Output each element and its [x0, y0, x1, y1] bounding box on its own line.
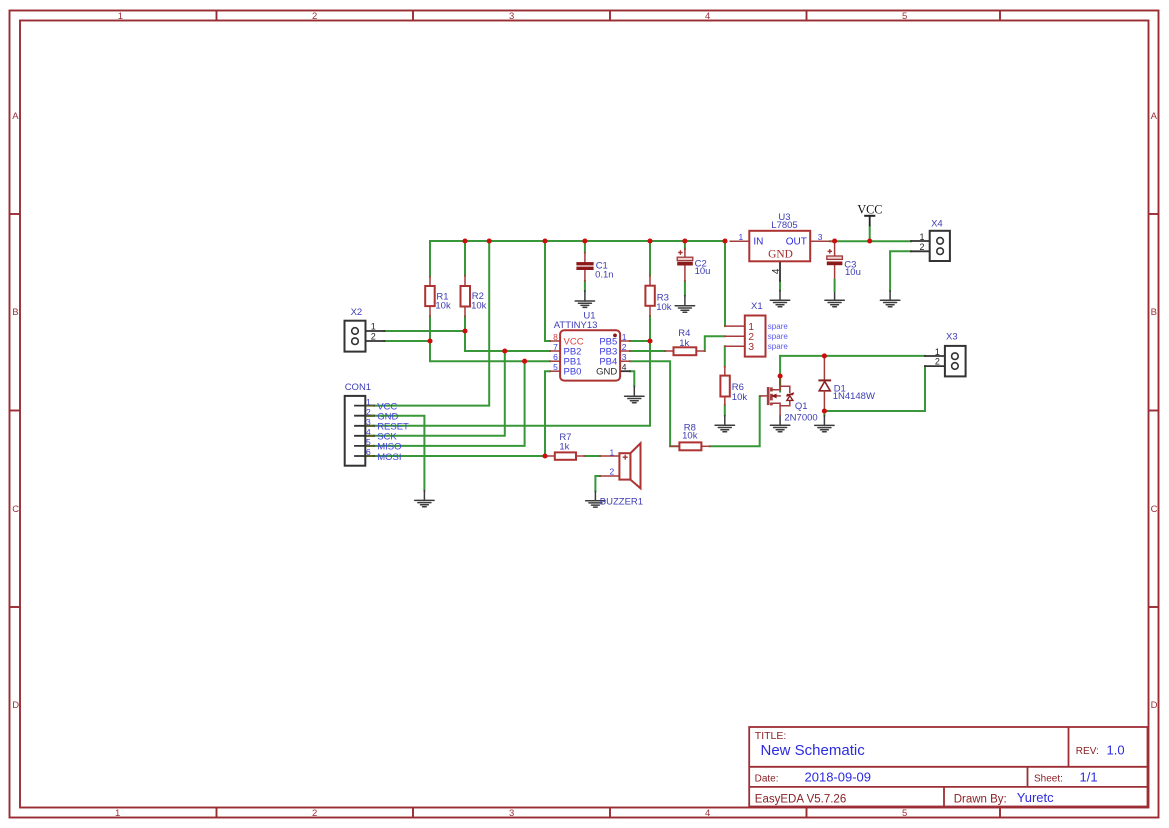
svg-text:OUT: OUT [786, 236, 807, 247]
ruler tick top 1 [216, 11, 218, 21]
title block DrawnBy divider [943, 787, 945, 807]
svg-text:spare: spare [768, 332, 789, 341]
wire MOSI net [374, 455, 545, 457]
op-amp U1 ATTINY13 body [550, 330, 630, 380]
ruler tick top 3 [609, 11, 611, 21]
ruler tick bottom 1 [216, 808, 218, 818]
svg-text:8: 8 [553, 332, 558, 342]
wire D1 anode to X3 pin2 [824, 366, 925, 411]
svg-text:1: 1 [920, 232, 925, 242]
svg-text:2: 2 [371, 332, 376, 342]
svg-text:D: D [12, 700, 19, 711]
svg-text:EasyEDA V5.7.26: EasyEDA V5.7.26 [755, 793, 846, 805]
ruler tick top 4 [806, 11, 808, 21]
ground CON1 [415, 491, 434, 507]
svg-text:1k: 1k [679, 338, 689, 349]
junction OUT VCC [867, 238, 872, 243]
power symbol VCC [857, 203, 882, 227]
connector CON1 [345, 396, 374, 466]
title block outline [749, 727, 1147, 807]
svg-text:VCC: VCC [857, 203, 882, 217]
svg-text:Q1: Q1 [795, 401, 808, 412]
wire R1 bottom [429, 316, 431, 341]
title block Sheet divider [1027, 767, 1029, 787]
svg-text:2018-09-09: 2018-09-09 [805, 769, 872, 784]
svg-text:B: B [1151, 307, 1157, 318]
svg-text:Date:: Date: [755, 773, 779, 784]
junction bus R2 [462, 238, 467, 243]
junction Q1 drain [778, 373, 783, 378]
svg-text:0.1n: 0.1n [595, 270, 614, 281]
connector X3 [925, 346, 966, 377]
GROUNDS [415, 291, 900, 508]
title block REV divider [1068, 727, 1070, 767]
svg-text:5: 5 [902, 808, 907, 819]
wire U3 pin4 [779, 281, 781, 291]
junction MOSI R7 PB0 [542, 453, 547, 458]
resistor R6 [720, 367, 729, 405]
junction bus C2 [682, 238, 687, 243]
ruler tick bottom 4 [806, 808, 808, 818]
svg-text:Yuretc: Yuretc [1017, 790, 1054, 805]
TITLEBLOCK [749, 727, 1147, 807]
svg-text:10k: 10k [682, 431, 698, 442]
svg-text:10u: 10u [845, 267, 861, 278]
svg-text:2: 2 [312, 11, 317, 22]
junction OUT C3 [832, 238, 837, 243]
svg-text:X1: X1 [751, 301, 763, 312]
svg-text:10k: 10k [732, 392, 748, 403]
svg-text:IN: IN [753, 236, 763, 247]
svg-text:C: C [1151, 504, 1158, 515]
resistor R2 [461, 276, 471, 317]
svg-text:3: 3 [622, 352, 627, 362]
capacitor C3 [827, 241, 843, 291]
wire PB2 net [465, 331, 550, 351]
svg-text:2: 2 [920, 242, 925, 252]
wire VCC bus [430, 240, 725, 242]
ground D1 [815, 416, 834, 432]
wire X2 pin1 [384, 330, 465, 332]
svg-text:6: 6 [366, 447, 371, 457]
svg-text:X2: X2 [351, 307, 363, 318]
svg-text:1: 1 [935, 347, 940, 357]
wire CON1 GND [366, 416, 424, 491]
ground Q1 source [770, 415, 789, 431]
svg-text:GND: GND [768, 249, 793, 261]
resistor R1 [425, 277, 435, 317]
svg-text:D: D [1151, 700, 1158, 711]
wire Q1 drain riser [779, 356, 781, 376]
ground C3 [825, 291, 844, 307]
svg-text:2: 2 [622, 342, 627, 352]
diode D1 1N4148W [818, 356, 831, 411]
ground U1 pin4 [625, 386, 644, 402]
svg-text:1: 1 [366, 397, 371, 407]
wire R4 to X1 pin2 [705, 336, 725, 351]
svg-text:10k: 10k [471, 301, 487, 312]
ruler tick left 1 [10, 213, 21, 215]
svg-text:C: C [12, 504, 19, 515]
wire R7 to buzzer [585, 455, 601, 457]
wire buzzer pin2 to ground [595, 476, 600, 491]
wire PB4 to R8 [630, 361, 679, 446]
wire X1 pin3 to R6 [724, 346, 726, 367]
wire X2 pin2 [384, 340, 430, 342]
svg-text:Sheet:: Sheet: [1034, 773, 1063, 784]
ground C1 [575, 291, 594, 308]
ground U3 [770, 291, 789, 307]
ruler tick right 3 [1149, 606, 1160, 608]
wire C1 top [584, 241, 586, 252]
wire CON1 VCC riser [374, 241, 489, 406]
ground buzzer [586, 491, 605, 507]
svg-text:10u: 10u [695, 266, 711, 277]
ruler tick bottom 5 [999, 808, 1001, 818]
svg-text:Drawn By:: Drawn By: [954, 793, 1007, 805]
wire X1 pin1 riser [724, 241, 726, 326]
wire MISO net [374, 361, 525, 446]
svg-text:6: 6 [553, 352, 558, 362]
svg-text:1.0: 1.0 [1107, 742, 1125, 757]
title block row divider 1 [749, 766, 1147, 768]
wire PB1 net [430, 341, 550, 361]
svg-text:1: 1 [371, 321, 376, 331]
svg-text:1: 1 [610, 447, 615, 457]
wire RESET net [374, 341, 650, 426]
svg-text:4: 4 [771, 268, 782, 274]
junction PB5 R3 RESET [647, 338, 652, 343]
resistor R4 [665, 347, 705, 355]
WIRES [366, 226, 925, 491]
ruler tick left 2 [10, 410, 21, 412]
svg-text:spare: spare [768, 342, 789, 351]
svg-text:2N7000: 2N7000 [784, 413, 817, 424]
junction SCK PB2 [502, 348, 507, 353]
junction bus X1 [722, 238, 727, 243]
ruler tick right 1 [1149, 213, 1160, 215]
wire PB5 to R3 [630, 340, 650, 342]
svg-text:1/1: 1/1 [1080, 769, 1098, 784]
svg-text:spare: spare [768, 322, 789, 331]
capacitor C2 [677, 249, 693, 281]
connector X2 [345, 321, 385, 352]
COMPONENTS [345, 203, 966, 508]
svg-text:10k: 10k [435, 301, 451, 312]
junction D1 cathode net [822, 353, 827, 358]
ground R6 [715, 416, 734, 432]
svg-text:CON1: CON1 [345, 382, 371, 393]
svg-text:3: 3 [366, 417, 371, 427]
ruler tick right 2 [1149, 410, 1160, 412]
junction D1 anode net [822, 408, 827, 413]
svg-text:A: A [12, 111, 19, 122]
svg-text:5: 5 [366, 437, 371, 447]
wire PB0 riser [545, 371, 550, 456]
svg-text:2: 2 [935, 356, 940, 366]
ruler tick top 2 [412, 11, 414, 21]
resistor R7 [545, 452, 585, 459]
svg-text:New Schematic: New Schematic [761, 742, 866, 759]
ruler tick left 3 [10, 606, 21, 608]
junction X2 pin2 R1 [427, 338, 432, 343]
wire SCK net [374, 351, 505, 436]
wire D1 anode stub [823, 411, 825, 416]
wire C1 bottom [584, 281, 586, 291]
svg-text:PB0: PB0 [564, 367, 582, 378]
resistor R3 [645, 276, 654, 317]
junction bus U1 VCC [542, 238, 547, 243]
junction X2 pin1 R2 [462, 328, 467, 333]
svg-text:1N4148W: 1N4148W [833, 391, 875, 402]
svg-text:2: 2 [610, 467, 615, 477]
svg-text:TITLE:: TITLE: [755, 730, 787, 742]
wire R2 bottom [464, 317, 466, 332]
ground X4 pin2 [880, 291, 899, 307]
svg-text:MOSI: MOSI [377, 452, 401, 463]
svg-text:2: 2 [312, 808, 317, 819]
connector X1 [725, 316, 766, 357]
wire R2 top riser [464, 241, 466, 276]
wire U3 OUT [830, 240, 911, 242]
svg-text:2: 2 [366, 407, 371, 417]
svg-text:A: A [1151, 111, 1158, 122]
svg-text:4: 4 [366, 427, 371, 437]
svg-text:3: 3 [748, 341, 754, 353]
svg-text:3: 3 [818, 232, 823, 242]
svg-text:10k: 10k [656, 302, 672, 313]
wire R3 bottom [649, 316, 651, 341]
wire C2 bottom [684, 281, 686, 295]
svg-text:7: 7 [553, 342, 558, 352]
capacitor C1 [576, 252, 593, 281]
JUNCTIONS [427, 238, 872, 458]
op-amp U3 L7805 body [730, 231, 830, 281]
ground C2 [675, 296, 694, 313]
junction bus R3 [647, 238, 652, 243]
title block row divider 2 [749, 786, 1147, 788]
wire R3 top riser [649, 241, 651, 276]
junction bus C1 [582, 238, 587, 243]
junction MISO PB1 [522, 359, 527, 364]
svg-text:GND: GND [596, 367, 617, 378]
svg-text:5: 5 [553, 362, 558, 372]
svg-text:REV:: REV: [1076, 746, 1099, 757]
svg-text:5: 5 [902, 11, 907, 22]
wire VCC symbol stem [869, 226, 871, 241]
wire C2 top [684, 241, 686, 249]
ruler tick bottom 2 [412, 808, 414, 818]
wire R1 top riser [429, 241, 431, 277]
svg-text:X3: X3 [946, 331, 958, 342]
ruler tick bottom 3 [609, 808, 611, 818]
svg-text:4: 4 [622, 362, 627, 372]
wire X4 pin2 to ground [890, 251, 911, 290]
svg-text:1: 1 [118, 11, 123, 22]
ruler tick top 5 [999, 11, 1001, 21]
svg-text:4: 4 [705, 11, 710, 22]
svg-text:4: 4 [705, 808, 710, 819]
svg-text:1k: 1k [559, 442, 569, 453]
svg-text:ATTINY13: ATTINY13 [554, 320, 598, 331]
connector X4 [911, 231, 950, 261]
svg-text:BUZZER1: BUZZER1 [600, 496, 643, 507]
svg-text:B: B [12, 307, 18, 318]
svg-text:1: 1 [622, 332, 627, 342]
svg-text:3: 3 [509, 11, 514, 22]
svg-text:1: 1 [115, 808, 120, 819]
buzzer BUZZER1 [600, 443, 641, 488]
wire drain node to X3 pin1 [780, 355, 925, 357]
svg-text:3: 3 [509, 808, 514, 819]
junction bus CON1 VCC [487, 238, 492, 243]
wire PB3 to R4 [630, 350, 665, 352]
wire R6 bottom [724, 405, 726, 416]
wire R8 to Q1 gate [710, 396, 760, 446]
resistor R8 [670, 442, 710, 450]
wire U1 pin4 to ground [630, 371, 634, 386]
wire U1 pin8 VCC riser [545, 241, 550, 341]
transistor Q1 2N7000 [760, 376, 794, 416]
svg-text:L7805: L7805 [771, 220, 797, 231]
svg-text:1: 1 [739, 232, 744, 242]
svg-text:X4: X4 [931, 218, 943, 229]
